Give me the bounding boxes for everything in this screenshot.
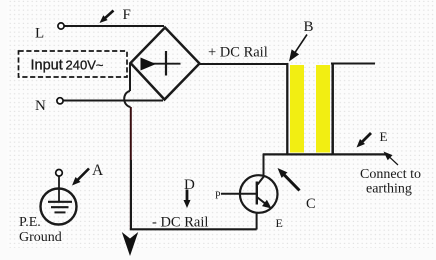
svg-text:Input: Input xyxy=(31,58,63,74)
svg-text:240V~: 240V~ xyxy=(66,58,104,73)
svg-text:B: B xyxy=(304,19,314,35)
svg-text:F: F xyxy=(123,7,131,23)
svg-text:D: D xyxy=(184,177,195,193)
svg-text:L: L xyxy=(35,26,44,42)
svg-text:P.E.: P.E. xyxy=(19,215,41,230)
svg-text:earthing: earthing xyxy=(366,182,412,197)
svg-text:+ DC Rail: + DC Rail xyxy=(208,45,268,61)
svg-text:N: N xyxy=(35,98,46,114)
svg-text:P: P xyxy=(215,191,221,202)
svg-text:Connect to: Connect to xyxy=(360,167,421,182)
svg-text:E: E xyxy=(380,129,388,144)
svg-text:- DC Rail: - DC Rail xyxy=(152,215,208,231)
svg-text:Ground: Ground xyxy=(19,230,62,245)
svg-text:C: C xyxy=(306,196,316,212)
svg-text:A: A xyxy=(92,162,104,179)
svg-text:E: E xyxy=(276,216,283,230)
